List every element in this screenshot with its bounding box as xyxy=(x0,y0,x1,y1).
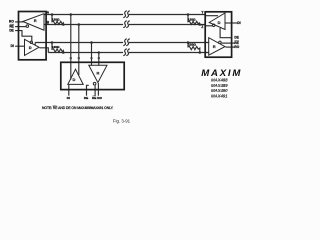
svg-text:DE: DE xyxy=(9,28,13,32)
svg-text:R: R xyxy=(34,18,37,23)
svg-text:RO: RO xyxy=(9,20,14,24)
svg-text:DI: DI xyxy=(11,44,14,48)
svg-text:MAX488: MAX488 xyxy=(211,77,228,82)
svg-text:D: D xyxy=(218,20,221,25)
svg-text:MAX490: MAX490 xyxy=(211,88,228,93)
svg-text:Fig. 3-91: Fig. 3-91 xyxy=(113,118,131,123)
svg-text:Z: Z xyxy=(201,25,203,29)
svg-text:D: D xyxy=(29,45,32,50)
svg-text:MAX489: MAX489 xyxy=(211,83,228,88)
svg-text:R: R xyxy=(213,44,216,49)
svg-text:NOTE: RE AND DE ON MAX489/MAX4: NOTE: RE AND DE ON MAX489/MAX491 ONLY. xyxy=(42,106,114,110)
svg-text:DE: DE xyxy=(84,96,88,100)
svg-text:120Ω: 120Ω xyxy=(52,17,60,21)
svg-text:DI: DI xyxy=(67,96,70,100)
svg-text:MAX491: MAX491 xyxy=(211,94,228,99)
svg-text:R: R xyxy=(96,70,99,75)
svg-text:RE: RE xyxy=(92,96,96,100)
svg-text:DE: DE xyxy=(234,36,238,40)
svg-text:RO: RO xyxy=(97,96,102,100)
svg-text:120Ω: 120Ω xyxy=(188,17,196,21)
svg-text:120Ω: 120Ω xyxy=(52,45,60,49)
svg-text:DI: DI xyxy=(237,21,240,25)
svg-text:RO: RO xyxy=(234,45,239,49)
svg-text:D: D xyxy=(73,77,76,82)
svg-text:120Ω: 120Ω xyxy=(188,43,196,47)
